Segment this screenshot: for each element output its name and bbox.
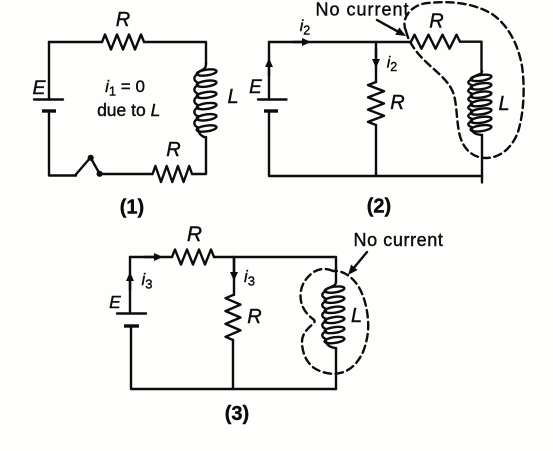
- current arrow i3 down on middle branch (circuit 3): [233, 257, 235, 262]
- resistor R (bottom, circuit 1): [153, 166, 192, 182]
- current arrow on top wire (circuit 3): [145, 256, 156, 258]
- svg-text:E: E: [249, 77, 262, 98]
- svg-text:(1): (1): [120, 197, 144, 219]
- wire: circuit3 left vertical top (with arrow up): [129, 257, 131, 312]
- svg-text:due to L: due to L: [97, 100, 160, 120]
- dashed loop around R and L (no-current loop, circuit 2): [404, 2, 523, 158]
- wire: circuit1 left vertical below battery: [49, 111, 76, 176]
- current arrow i2 down on middle branch: [375, 48, 377, 61]
- svg-text:i3: i3: [142, 271, 153, 292]
- wire: circuit2 middle branch lower vertical: [375, 125, 377, 176]
- switch contact dot lower: [97, 171, 103, 177]
- svg-text:No current: No current: [315, 0, 409, 19]
- wire: circuit1 right vertical above inductor: [144, 42, 206, 64]
- pointer arrow from No current to loop (circuit 3): [352, 252, 367, 270]
- wire: circuit1 bottom-right corner to inductor: [192, 137, 206, 174]
- pointer arrow from No current to loop (circuit 2): [377, 20, 401, 33]
- svg-text:R: R: [429, 11, 443, 33]
- svg-text:(2): (2): [367, 196, 391, 218]
- svg-text:i1 = 0: i1 = 0: [105, 77, 145, 99]
- svg-text:R: R: [390, 92, 404, 114]
- svg-text:L: L: [351, 305, 362, 327]
- inductor L (circuit 2): [468, 71, 492, 135]
- svg-text:R: R: [166, 139, 180, 161]
- wire: circuit2 top wire: [269, 41, 411, 43]
- wire: circuit3 left vertical below battery + bottom wire: [131, 326, 336, 389]
- resistor R (top, circuit 3): [172, 250, 214, 265]
- svg-text:E: E: [32, 77, 46, 99]
- wire: circuit3 top wire left: [130, 256, 172, 258]
- switch contact dot upper: [88, 155, 94, 161]
- resistor R (top right, circuit 2): [411, 35, 460, 49]
- wire: circuit1 top wire left segment: [49, 41, 102, 43]
- wire: circuit3 top wire right: [214, 257, 336, 282]
- inductor L (circuit 1): [194, 64, 217, 138]
- inductor L (circuit 3): [322, 282, 345, 349]
- resistor R (middle branch, circuit 3): [226, 295, 241, 340]
- current arrow up on left wire (circuit 2): [268, 65, 270, 76]
- svg-text:E: E: [109, 292, 121, 312]
- wire: circuit2 left vertical top (with current arrow up): [268, 42, 270, 98]
- wire: circuit2 top-right corner down to inductor: [460, 42, 482, 72]
- resistor R (middle branch, circuit 2): [368, 82, 384, 125]
- svg-text:i2: i2: [387, 55, 398, 75]
- battery E (cell, circuit 1): [34, 100, 63, 112]
- wire: circuit3 right vertical below inductor: [335, 348, 337, 389]
- wire: circuit2 right vertical below inductor: [481, 135, 483, 183]
- wire: circuit1 top-left vertical (E to top wire): [48, 42, 50, 98]
- svg-text:L: L: [227, 86, 238, 108]
- svg-text:R: R: [187, 223, 202, 246]
- svg-text:(3): (3): [225, 403, 249, 425]
- svg-text:No current: No current: [353, 230, 443, 250]
- resistor R (top, circuit 1): [102, 35, 144, 50]
- wire: circuit2 left vertical below battery + bottom wire: [269, 111, 482, 176]
- battery E (cell, circuit 3): [117, 314, 146, 327]
- current arrow up on left wire (circuit 3): [129, 279, 131, 290]
- current arrow i2 on top wire: [293, 41, 304, 43]
- dashed loop around L (no-current loop, circuit 3): [300, 269, 368, 374]
- wire: circuit3 middle branch verticals: [233, 257, 234, 389]
- battery E (cell, circuit 2): [258, 100, 287, 112]
- svg-text:R: R: [116, 9, 130, 31]
- svg-text:L: L: [498, 93, 509, 115]
- svg-text:R: R: [247, 306, 261, 328]
- switch blade (open switch, circuit 1): [75, 158, 100, 176]
- svg-text:i2: i2: [300, 18, 311, 38]
- wire: circuit2 middle branch vertical: [375, 42, 377, 82]
- wire: circuit1 bottom between switch and resistor: [100, 173, 153, 175]
- svg-text:i3: i3: [244, 268, 255, 289]
